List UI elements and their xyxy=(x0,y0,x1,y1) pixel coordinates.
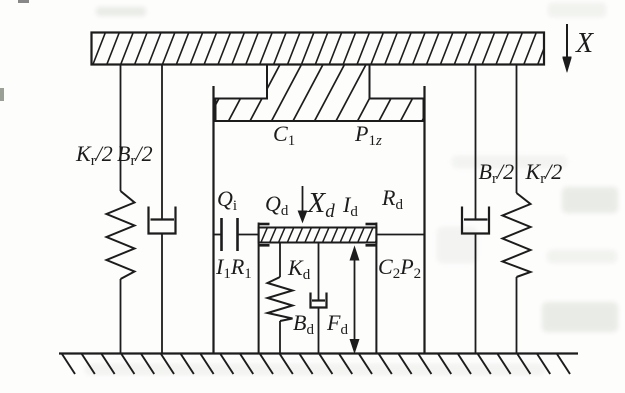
orifice Qi plate left xyxy=(220,218,223,251)
spring Kr/2 left xyxy=(107,191,135,279)
decoupler cage right column xyxy=(375,223,377,354)
svg-text:Br/2: Br/2 xyxy=(479,159,515,187)
rod: spring Kr/2 left to ground xyxy=(120,279,122,354)
cage retainer tick lower right xyxy=(366,244,377,247)
arrow X (excitation displacement) xyxy=(563,24,572,72)
damper Br/2 right piston plate xyxy=(464,218,488,220)
svg-text:X: X xyxy=(575,28,594,59)
cage retainer tick upper right xyxy=(366,223,377,226)
piston outline xyxy=(216,65,424,122)
rod: damper Br/2 left to ground xyxy=(161,234,163,354)
damper Br/2 left cylinder cup xyxy=(149,207,176,234)
decoupler plate (hatched) xyxy=(252,228,391,243)
wire: decoupler plate to right wall xyxy=(376,234,424,236)
damper Br/2 left piston plate xyxy=(151,218,175,220)
damper Bd piston plate xyxy=(312,299,325,301)
cylinder right wall xyxy=(423,86,425,354)
top rigid bar (hatched mass plate) xyxy=(79,33,564,65)
rod: bar to spring Kr/2 right xyxy=(516,65,518,194)
damper Br/2 right cylinder cup xyxy=(462,207,489,234)
cage retainer tick lower left xyxy=(259,244,270,247)
spring Kd xyxy=(268,277,293,321)
cage retainer tick upper left xyxy=(259,223,270,226)
arrow Xd (decoupler displacement) xyxy=(298,186,306,222)
rod: decoupler plate to spring Kd xyxy=(279,243,281,278)
decoupler cage left column xyxy=(258,223,260,354)
rod: damper Bd to ground xyxy=(318,308,320,354)
wire: left wall to orifice Qi xyxy=(214,234,221,236)
rod: decoupler plate to damper Bd piston xyxy=(318,243,320,301)
ground hatching xyxy=(62,354,570,374)
rod: spring Kr/2 right to ground xyxy=(516,277,518,354)
wire: orifice Qi to decoupler plate xyxy=(239,234,259,236)
ground line xyxy=(59,352,578,354)
rod: bar to spring Kr/2 left xyxy=(120,65,122,192)
svg-text:Br/2: Br/2 xyxy=(117,141,153,169)
rod: damper Br/2 right to ground xyxy=(475,234,477,354)
rod: spring Kd to ground xyxy=(279,321,281,354)
cylinder left wall xyxy=(212,86,214,354)
rod: bar to damper Br/2 right piston xyxy=(475,65,477,220)
orifice Qi plate right xyxy=(236,218,239,251)
spring Kr/2 right xyxy=(503,193,531,277)
arrow Fd (force, double-headed) xyxy=(350,247,359,353)
rod: bar to damper Br/2 left piston xyxy=(161,65,163,220)
piston (column + flange, hatched) xyxy=(186,65,474,122)
damper Bd cylinder cup xyxy=(311,293,327,308)
